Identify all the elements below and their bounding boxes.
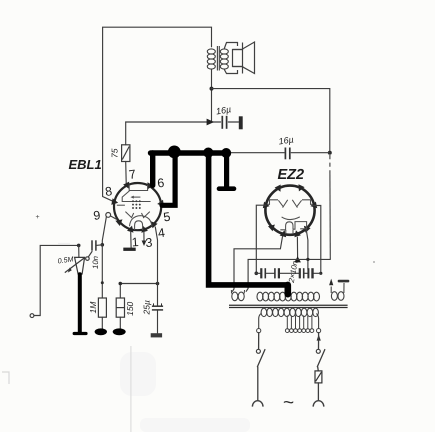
wire dashed cathode drop bbox=[329, 155, 331, 259]
wire pin3 stub bbox=[143, 232, 145, 242]
potentiometer 0.5M bbox=[78, 245, 80, 257]
svg-text:+: + bbox=[36, 214, 40, 221]
switch S1 left bbox=[257, 333, 265, 400]
node B+ junction at speaker bbox=[210, 87, 214, 91]
node filter row junction bbox=[254, 272, 258, 276]
capacitor pair right bbox=[300, 268, 313, 278]
node grid junction bbox=[101, 243, 105, 247]
terminal mains left bbox=[252, 401, 263, 407]
node arrow junction bbox=[207, 119, 215, 126]
tube EBL1 internal electrodes bbox=[117, 185, 152, 231]
wire winding bus y259 bbox=[246, 259, 330, 291]
wire mains arrow right bbox=[317, 334, 321, 340]
fuse F1 bbox=[315, 371, 322, 383]
node highlighted junction 1 bbox=[168, 146, 181, 159]
tube EZ2 envelope bbox=[265, 186, 314, 235]
wire cathode bus bbox=[120, 283, 157, 285]
svg-text:1: 1 bbox=[131, 235, 139, 249]
tube EBL1 pin contacts bbox=[111, 182, 164, 233]
wire EZ2 heater left bbox=[232, 237, 282, 292]
node highlighted junction 2 bbox=[203, 148, 213, 158]
resistor 150 bbox=[119, 284, 121, 329]
resistor 1M bbox=[101, 245, 103, 329]
ground heater T-bar bbox=[338, 280, 350, 283]
switch S2 right bbox=[317, 333, 325, 371]
transformer T1 heater winding EBL1 bbox=[231, 290, 244, 301]
ground highlighted blob 1M bbox=[95, 328, 107, 335]
transformer T1 core bbox=[229, 305, 348, 307]
output transformer T2 bbox=[207, 46, 228, 71]
capacitor 16u second bbox=[285, 148, 289, 160]
tube EBL1 envelope bbox=[114, 183, 161, 230]
node highlighted junction 3 bbox=[221, 148, 231, 158]
transformer T1 heater winding EZ2 bbox=[331, 283, 344, 300]
svg-text:25µ: 25µ bbox=[141, 300, 151, 315]
terminal input jack bbox=[30, 314, 34, 318]
wire highlighted pin6 drop bbox=[150, 153, 155, 185]
capacitor 16u first bbox=[222, 116, 226, 129]
svg-text:EZ2: EZ2 bbox=[278, 167, 305, 183]
svg-text:1M: 1M bbox=[88, 301, 98, 314]
svg-text:10n: 10n bbox=[91, 256, 100, 269]
transformer T1 HV secondary bbox=[257, 292, 320, 301]
wire HT to filter bbox=[226, 152, 330, 154]
resistor 75 bbox=[125, 122, 128, 183]
svg-text:EBL1: EBL1 bbox=[69, 157, 102, 172]
wire highlighted long drop to transformer bbox=[209, 153, 288, 285]
node pot top junction bbox=[77, 244, 81, 248]
capacitor 25u bbox=[152, 303, 163, 310]
wire highlighted B+ bar bbox=[151, 150, 228, 156]
svg-text:150: 150 bbox=[125, 301, 135, 315]
capacitor pair left bbox=[261, 268, 279, 278]
wire B+ top loop bbox=[103, 27, 212, 201]
wire screen feed y122 bbox=[126, 121, 239, 123]
wire speaker branch bbox=[211, 70, 213, 123]
wire B+ rail to EZ2 cathode bbox=[212, 89, 330, 153]
wire EZ2 left pin down bbox=[256, 205, 266, 273]
wire EZ2 anode down bbox=[306, 230, 308, 269]
wire filter row bbox=[255, 272, 321, 274]
wire heater arrow bbox=[329, 279, 333, 286]
wire highlighted probe stub bbox=[224, 153, 229, 186]
svg-text:3: 3 bbox=[145, 236, 153, 250]
wire pin4 down bbox=[155, 227, 157, 333]
ground 25u bbox=[151, 333, 162, 337]
transformer T1 primary taps bbox=[257, 315, 321, 332]
capacitor 10n bbox=[92, 240, 96, 250]
wire input to pot bbox=[34, 245, 78, 315]
ground pin1 bbox=[130, 232, 132, 248]
tube EZ2 internal diodes bbox=[267, 200, 313, 234]
node grid cap terminal bbox=[106, 213, 111, 218]
svg-text:~: ~ bbox=[283, 393, 294, 414]
wire highlighted pin5 drop bbox=[162, 153, 175, 205]
wire highlighted pot arm bbox=[78, 274, 82, 332]
node triangle junction bbox=[294, 256, 301, 262]
terminal mains right bbox=[313, 401, 324, 407]
wire EZ2 right pin down bbox=[313, 206, 321, 274]
tube EZ2 pin contacts bbox=[263, 184, 317, 237]
svg-text:16µ: 16µ bbox=[278, 134, 294, 146]
ground highlighted blob 150 bbox=[113, 328, 126, 335]
transformer T1 primary bbox=[259, 308, 319, 328]
node junction 16u bbox=[328, 151, 332, 155]
svg-text:75: 75 bbox=[110, 148, 120, 158]
wire EZ2 heater mid bbox=[296, 237, 298, 257]
speaker LS bbox=[224, 42, 254, 74]
